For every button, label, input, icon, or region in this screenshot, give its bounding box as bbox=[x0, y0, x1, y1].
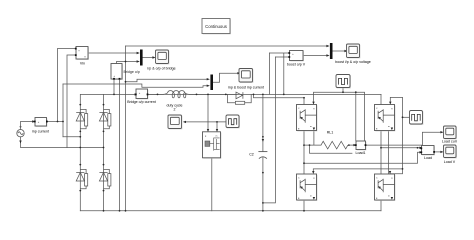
svg-text:Load: Load bbox=[424, 156, 432, 160]
svg-text:Load curr: Load curr bbox=[442, 139, 458, 143]
svg-text:Continuous: Continuous bbox=[205, 24, 227, 29]
svg-text:Bridge o/p current: Bridge o/p current bbox=[127, 100, 156, 104]
svg-text:C2: C2 bbox=[249, 153, 254, 157]
svg-text:2: 2 bbox=[174, 107, 176, 111]
svg-text:boost o/p V: boost o/p V bbox=[287, 62, 306, 66]
svg-text:inp & boost inp current: inp & boost inp current bbox=[228, 85, 264, 89]
svg-text:Vin: Vin bbox=[80, 61, 85, 65]
svg-text:Load V: Load V bbox=[444, 160, 456, 164]
svg-text:i/p & o/p of bridge: i/p & o/p of bridge bbox=[147, 66, 175, 70]
svg-text:inp current: inp current bbox=[32, 129, 49, 133]
svg-text:Bridge o/p: Bridge o/p bbox=[124, 70, 140, 74]
svg-text:RL1: RL1 bbox=[327, 130, 334, 134]
svg-text:m: m bbox=[216, 136, 218, 138]
svg-text:boost i/p & o/p voltage: boost i/p & o/p voltage bbox=[335, 60, 371, 64]
svg-text:Load1: Load1 bbox=[356, 151, 366, 155]
